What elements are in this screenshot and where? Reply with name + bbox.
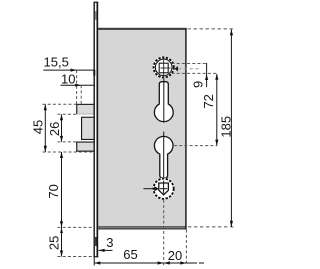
extension dashed vertical box fronts	[76, 70, 78, 104]
svg-text:26: 26	[47, 122, 62, 136]
svg-text:20: 20	[168, 248, 182, 263]
follower inner circle	[155, 59, 172, 76]
square center cross	[163, 58, 165, 78]
WC follower (bottom)	[152, 178, 174, 200]
spindle square hole	[159, 63, 168, 73]
dashed body-top line	[188, 28, 234, 30]
svg-text:72: 72	[201, 94, 216, 108]
dim 26	[47, 114, 63, 142]
bottom extension lines	[93, 257, 95, 266]
extension dashed horizontals left	[43, 103, 77, 105]
dashed square-top line	[172, 63, 207, 65]
center line upper keyhole	[163, 77, 165, 122]
svg-text:25: 25	[47, 236, 62, 250]
dim 15,5	[43, 54, 94, 71]
follower rose dashed circle	[154, 57, 174, 77]
bottom rose dashed circle	[154, 179, 174, 199]
euro cylinder hole upper (stem up, circle down)	[154, 82, 173, 122]
lock case body	[96, 28, 186, 230]
svg-text:10: 10	[61, 72, 75, 87]
dim 25	[47, 227, 64, 256]
faceplate screw slot bottom	[95, 237, 97, 246]
svg-text:185: 185	[218, 116, 233, 138]
svg-text:70: 70	[46, 184, 61, 198]
euro cylinder hole lower (circle up, stem down)	[154, 136, 173, 178]
faceplate thick segment (screw slot mid)	[93, 70, 95, 76]
bottom dimension 65 / 20	[94, 247, 204, 264]
center line lower keyhole	[163, 132, 165, 196]
leader arrow at bottom follower	[143, 186, 159, 191]
dim 45	[30, 104, 47, 152]
latch boxes left of faceplate	[76, 104, 94, 152]
shield center cross	[163, 181, 165, 194]
dim 9	[191, 63, 209, 88]
faceplate	[93, 2, 98, 258]
svg-text:45: 45	[30, 120, 45, 134]
dim 72	[201, 74, 219, 146]
leader arrow at top follower	[175, 66, 200, 72]
svg-text:9: 9	[191, 81, 206, 88]
dim 10	[61, 72, 95, 87]
shield hole	[159, 183, 169, 195]
svg-text:3: 3	[106, 235, 113, 250]
svg-text:15,5: 15,5	[44, 54, 69, 69]
dim 185	[218, 29, 233, 227]
dim 3	[99, 235, 114, 252]
svg-text:65: 65	[123, 247, 137, 262]
dashed cylinder center line	[174, 145, 217, 147]
handle follower (top)	[153, 56, 175, 78]
dim 70	[46, 152, 63, 227]
dashed body-bottom line	[188, 226, 234, 228]
dashed square-bottom line	[172, 72, 217, 74]
faceplate screw slot top	[95, 11, 96, 20]
